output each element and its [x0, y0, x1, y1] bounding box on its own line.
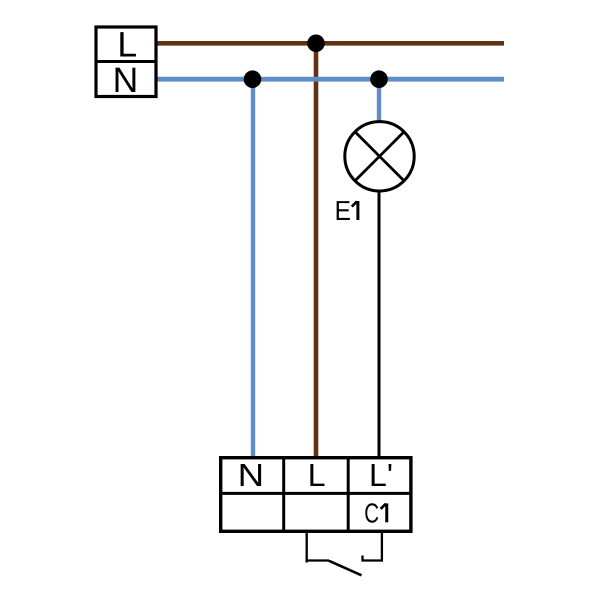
svg-text:C: C	[364, 497, 379, 528]
wire brown horizontal bus (L)	[155, 41, 504, 46]
svg-text:L: L	[117, 25, 137, 65]
junction dot on blue bus (left)	[244, 70, 262, 88]
junction dot on brown bus	[307, 35, 325, 53]
junction dot on blue bus (right)	[370, 70, 388, 88]
svg-text:N: N	[238, 457, 265, 493]
wire blue vertical (N drop to terminal N)	[251, 79, 255, 457]
terminal block N L L' / C1	[219, 456, 413, 533]
svg-text:N: N	[113, 60, 139, 100]
switch left seat	[306, 559, 330, 561]
lamp E1 circle	[345, 122, 414, 191]
svg-text:E: E	[335, 195, 351, 226]
wire brown vertical (L drop to terminal L)	[314, 43, 319, 457]
supply box L/N	[95, 27, 158, 97]
svg-text:L': L'	[369, 457, 393, 493]
switch C1 left pin	[306, 531, 308, 563]
wire black (lamp to terminal L')	[378, 191, 381, 457]
switch blade	[329, 561, 362, 576]
wire blue stub to lamp E1	[377, 79, 381, 121]
wire blue horizontal bus (N)	[155, 77, 504, 82]
svg-text:L: L	[308, 457, 326, 493]
lamp E1 cross	[355, 132, 404, 181]
switch C1 right pin	[381, 531, 383, 562]
switch right seat hook	[363, 556, 384, 561]
